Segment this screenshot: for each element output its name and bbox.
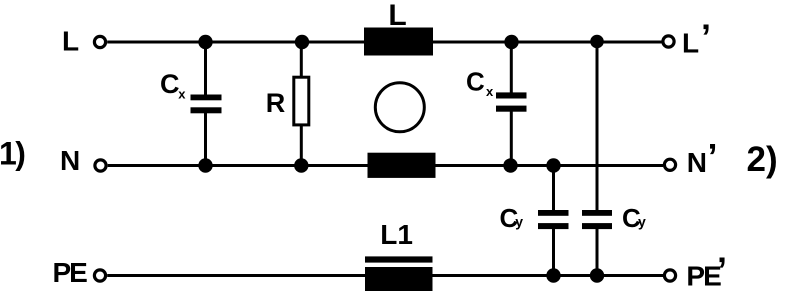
wire R top lead (300, 42, 303, 77)
node: L/Cx2 junction (504, 35, 518, 49)
capacitor Cx2 (496, 92, 527, 98)
svg-text:’: ’ (708, 136, 718, 177)
wire PE terminal to L1 (107, 274, 365, 277)
terminal PE' (664, 270, 675, 281)
wire inductor L to L' terminal (433, 41, 662, 44)
svg-text:y: y (638, 213, 646, 229)
svg-text:N: N (60, 145, 80, 176)
node: L/Cy junction (590, 35, 604, 49)
svg-text:x: x (486, 84, 494, 99)
node: N/R junction (294, 158, 308, 172)
inductor L1 core bar (365, 256, 433, 262)
wire from L line down to right Cy (crosses N line) (596, 42, 599, 211)
svg-text:x: x (178, 86, 186, 101)
svg-text:C: C (466, 67, 485, 97)
svg-text:PE: PE (53, 257, 88, 288)
wire Cx2 top lead (510, 42, 513, 93)
svg-text:C: C (160, 69, 180, 99)
terminal N (95, 160, 106, 171)
wire Cx1 top lead (204, 42, 207, 95)
wire L1 to PE' terminal (433, 274, 664, 277)
svg-text:L: L (388, 0, 406, 32)
inductor (N line) (368, 153, 436, 178)
wire left Cy top lead (552, 166, 555, 211)
capacitor Cy (right) (582, 210, 612, 216)
node: L/Cx1 junction (198, 35, 212, 49)
capacitor Cy (left) (538, 210, 569, 216)
svg-text:2): 2) (747, 140, 778, 179)
wire L terminal to inductor L (107, 41, 364, 44)
node: L/R junction (295, 35, 309, 49)
wire left Cy bottom lead (552, 229, 555, 276)
node: PE/right Cy junction (590, 268, 604, 282)
svg-text:L1: L1 (380, 219, 413, 250)
common-mode choke core circle (375, 83, 424, 132)
wire Cx2 bottom lead (510, 111, 513, 166)
node: N/Cx1 junction (198, 158, 212, 172)
resistor R (294, 77, 309, 125)
svg-text:R: R (266, 88, 286, 118)
terminal L' (663, 36, 674, 47)
svg-text:PE: PE (686, 260, 721, 291)
node: N/Cy junction (546, 158, 560, 172)
wire N terminal to inductor (108, 164, 368, 167)
node: N/Cx2 junction (503, 158, 517, 172)
svg-text:L: L (682, 27, 699, 58)
inductor L1 body (365, 267, 433, 291)
wire N inductor to N' terminal (436, 164, 664, 167)
terminal N' (664, 159, 675, 170)
svg-text:’: ’ (717, 250, 727, 291)
inductor L (364, 28, 433, 56)
svg-text:L: L (62, 26, 79, 57)
svg-text:’: ’ (701, 17, 711, 58)
terminal L (94, 36, 105, 47)
wire right Cy bottom lead (596, 229, 599, 276)
wire R bottom lead (300, 125, 303, 166)
node: PE/left Cy junction (546, 268, 560, 282)
terminal PE (94, 270, 105, 281)
wire Cx1 bottom lead (204, 113, 207, 166)
capacitor Cx1 (191, 95, 222, 101)
svg-text:y: y (515, 213, 523, 229)
svg-text:N: N (687, 147, 707, 178)
svg-text:1): 1) (0, 136, 25, 172)
